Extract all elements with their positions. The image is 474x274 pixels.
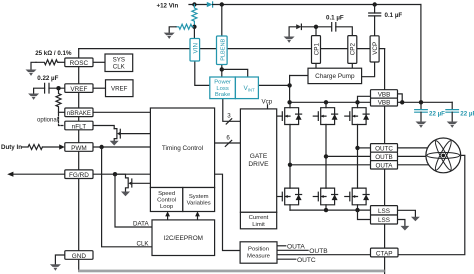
svg-text:FG/RD: FG/RD xyxy=(69,172,89,179)
svg-text:System: System xyxy=(189,194,209,200)
wire VREF to internal VREF box xyxy=(93,87,106,89)
node PWM / CLK branch xyxy=(99,145,103,149)
bus slash 6 xyxy=(225,140,231,146)
capacitor C4 22uF xyxy=(420,102,422,109)
resistor R3 (ROSC) xyxy=(36,60,59,65)
node rail phase C xyxy=(355,100,359,104)
ground (Q1 source) xyxy=(110,141,119,146)
wire VBB1 to bus xyxy=(398,94,403,102)
diode D2 (charge pump) xyxy=(296,24,301,29)
block Charge Pump xyxy=(308,68,362,83)
wire LSS2 to ground xyxy=(398,220,405,227)
node at +12Vin / resistor tap xyxy=(192,2,196,6)
svg-text:CP1: CP1 xyxy=(313,43,320,56)
svg-text:Control: Control xyxy=(157,197,176,203)
block Timing Control xyxy=(150,108,214,188)
wire cap to VREF pin xyxy=(49,87,65,89)
wire cap to ground xyxy=(34,88,45,94)
svg-text:nBRAKE: nBRAKE xyxy=(67,110,91,117)
wire phase A to OUTA pin xyxy=(290,164,371,166)
svg-text:6: 6 xyxy=(226,135,230,142)
pin FG/RD xyxy=(65,170,93,179)
svg-text:Limit: Limit xyxy=(252,222,265,228)
node below R1 xyxy=(192,25,196,29)
wire phase B to OUTB pin xyxy=(326,155,371,157)
node phase C tap xyxy=(355,146,359,150)
pin nFLT xyxy=(65,121,93,130)
node FG/RD / DATA branch xyxy=(113,172,117,176)
svg-text:Duty In: Duty In xyxy=(1,144,22,151)
arrow I2C to speed control loop xyxy=(167,215,169,220)
svg-text:GATE: GATE xyxy=(250,153,268,160)
svg-text:OUTB: OUTB xyxy=(375,154,393,161)
wire R3 to ground xyxy=(31,62,36,70)
svg-text:optional: optional xyxy=(37,118,58,124)
block I2C/EEPROM xyxy=(152,220,215,256)
block Position Measure xyxy=(240,242,277,263)
svg-text:PWM: PWM xyxy=(71,145,87,152)
svg-text:DRIVE: DRIVE xyxy=(248,161,269,168)
wire rail down to VBB bus xyxy=(420,5,422,103)
svg-text:Charge Pump: Charge Pump xyxy=(315,73,355,80)
svg-text:LSS: LSS xyxy=(378,217,390,224)
svg-text:22 µF: 22 µF xyxy=(460,111,474,118)
wire VIN down to Power Loss Brake xyxy=(195,61,210,85)
wire GND pin to ground xyxy=(55,255,65,265)
block System Variables xyxy=(183,188,215,212)
bus slash 3 xyxy=(226,119,232,124)
svg-text:25 kΩ / 0.1%: 25 kΩ / 0.1% xyxy=(35,50,72,57)
pin VBB 1 xyxy=(371,90,398,98)
wire rail to VBB pin 1 xyxy=(358,96,371,102)
pin LSS 1 xyxy=(371,206,398,215)
svg-text:+12 Vin: +12 Vin xyxy=(157,3,179,10)
block GATE DRIVE xyxy=(240,109,276,212)
wire VCP down to charge pump xyxy=(362,62,375,77)
svg-text:Loop: Loop xyxy=(160,204,174,210)
wire LSS1 to ground xyxy=(398,210,416,217)
svg-text:0.1 µF: 0.1 µF xyxy=(385,12,403,19)
svg-text:3: 3 xyxy=(227,113,231,120)
wire cap to CP2 xyxy=(336,27,353,36)
transistor Q7 (low side B) xyxy=(313,188,337,205)
pin PLBENB (teal) xyxy=(217,36,228,65)
svg-text:Brake: Brake xyxy=(215,92,231,98)
wire PM to OUTB label xyxy=(277,249,308,251)
node source rail B xyxy=(324,208,328,212)
svg-text:CLK: CLK xyxy=(113,64,126,71)
ground (top-left teal divider) xyxy=(164,33,175,39)
phase column B wire xyxy=(325,102,327,210)
block SYS CLK xyxy=(105,54,133,72)
wire VINT to charge pump net xyxy=(258,84,289,86)
svg-text:Variables: Variables xyxy=(187,200,211,206)
node CP1 top xyxy=(314,25,318,29)
node supply join xyxy=(419,100,423,104)
wire motor to CTAP xyxy=(398,155,465,254)
pin VBB 2 xyxy=(371,98,398,106)
net stub Vcp to gate drive xyxy=(267,105,269,109)
ground (C4) xyxy=(416,122,427,128)
wire Q2 gate to timing control xyxy=(132,182,151,184)
svg-text:OUTC: OUTC xyxy=(375,146,393,153)
IC boundary left edge xyxy=(78,49,80,272)
svg-text:GND: GND xyxy=(72,253,87,260)
IC boundary right edge xyxy=(384,49,386,274)
wire VIN pin to node xyxy=(193,27,195,39)
node on PLBENB wire xyxy=(220,67,224,71)
wire Power Loss Brake to gate drive (3-bus) xyxy=(223,99,241,122)
pin VREF xyxy=(65,84,93,93)
ground (charge pump diode) xyxy=(289,27,296,37)
svg-text:LSS: LSS xyxy=(378,208,390,215)
wire VCP pin up to cap xyxy=(374,16,376,36)
svg-text:Current: Current xyxy=(249,215,269,221)
block Current Limit xyxy=(240,212,276,229)
pin VCP xyxy=(370,36,379,62)
svg-text:VIN: VIN xyxy=(192,43,199,54)
svg-text:Timing Control: Timing Control xyxy=(162,145,203,152)
pin LSS 2 xyxy=(371,215,398,224)
svg-text:nFLT: nFLT xyxy=(72,123,87,130)
capacitor C1 0.1uF (CP1-CP2) xyxy=(332,23,336,31)
pin OUTC xyxy=(371,144,398,153)
svg-text:0.1 µF: 0.1 µF xyxy=(326,15,344,22)
wire ROSC to SYS CLK xyxy=(93,61,105,63)
wire PLBENB pin up to rail xyxy=(221,5,223,37)
svg-text:Position: Position xyxy=(248,246,269,252)
wire FG/RD output arrow xyxy=(12,173,65,175)
wire R5 to PWM pin with arrow xyxy=(42,146,61,148)
svg-text:Measure: Measure xyxy=(247,253,271,259)
block Power Loss Brake (teal) xyxy=(210,77,236,99)
wire PM to CTAP pin xyxy=(277,254,371,256)
svg-text:ROSC: ROSC xyxy=(70,60,89,67)
wire Duty In xyxy=(22,146,28,148)
ground (C5) xyxy=(447,122,458,128)
transistor Q1 (nFLT open drain) xyxy=(114,129,120,141)
motor M1 (fan) xyxy=(426,138,461,173)
pin OUTB xyxy=(371,152,398,160)
wire timing control to position measure xyxy=(215,174,241,250)
svg-text:VREF: VREF xyxy=(70,86,87,93)
svg-text:0.22 µF: 0.22 µF xyxy=(37,75,58,82)
ground (LSS2) xyxy=(401,226,410,231)
block Speed Control Loop xyxy=(150,188,182,212)
block VREF internal xyxy=(106,80,134,97)
wire OUTB to motor xyxy=(398,155,428,157)
bridge VBB rail xyxy=(290,101,371,103)
wire Q1 gate to timing control xyxy=(120,133,150,135)
svg-text:OUTC: OUTC xyxy=(297,257,316,264)
capacitor C3 0.22uF (VREF) xyxy=(45,83,49,93)
svg-text:CLK: CLK xyxy=(137,241,150,248)
wire CLK branch to I2C xyxy=(102,147,152,247)
node phase A tap xyxy=(288,163,292,167)
wire PM to OUTA label xyxy=(277,245,286,247)
pin ROSC xyxy=(65,58,93,67)
ground (VREF cap) xyxy=(28,94,39,100)
wire R3 to ROSC pin xyxy=(59,61,65,63)
node rail phase B xyxy=(324,100,328,104)
wire phase C to OUTC pin xyxy=(358,147,371,149)
phase column A wire xyxy=(289,102,291,210)
pin CP2 xyxy=(348,36,357,64)
svg-text:INT: INT xyxy=(248,87,255,92)
svg-text:SYS: SYS xyxy=(113,57,125,64)
resistor R2 (teal, horizontal) to ground xyxy=(176,24,194,29)
arrow I2C to system variables xyxy=(197,215,199,220)
wire FG/RD to timing control xyxy=(93,173,150,175)
wire diode to CP1 xyxy=(301,26,331,28)
transistor Q4 (high side B) xyxy=(313,108,337,125)
wire VBB bus to caps xyxy=(398,101,453,103)
wire nBRAKE to timing control xyxy=(93,111,150,113)
transistor Q5 (high side C) xyxy=(345,108,369,125)
block VINT (teal) xyxy=(235,77,258,99)
pin GND xyxy=(65,251,93,260)
wire CP2 down to charge pump xyxy=(351,63,353,68)
svg-text:VBB: VBB xyxy=(378,100,391,107)
svg-text:OUTA: OUTA xyxy=(375,162,393,169)
svg-text:CTAP: CTAP xyxy=(376,250,393,257)
phase column C wire xyxy=(357,102,359,210)
capacitor C5 22uF xyxy=(451,102,453,109)
resistor R1 (teal, vertical) from +12V xyxy=(192,5,197,27)
svg-text:VCP: VCP xyxy=(372,42,379,55)
svg-text:PLBENB: PLBENB xyxy=(220,38,226,60)
wire PM to OUTC label xyxy=(277,258,296,260)
node PLBENB tap on rail xyxy=(220,2,224,6)
wire R4 to nBRAKE pin xyxy=(59,111,66,113)
wire +12V top rail xyxy=(213,4,421,6)
pin CP1 xyxy=(312,36,321,64)
node VREF pull-up xyxy=(56,86,60,90)
svg-text:Speed: Speed xyxy=(158,191,175,197)
node bridge rail left xyxy=(287,100,291,104)
pin OUTA xyxy=(371,161,398,169)
ground (ROSC) xyxy=(26,70,37,76)
wire timing control to gate drive (6-bus) xyxy=(215,142,241,144)
wire node to VINT box xyxy=(222,69,248,77)
transistor Q8 (low side C) xyxy=(345,188,369,205)
ground (LSS1) xyxy=(411,217,420,222)
wire LSS2 to source rail xyxy=(358,210,371,219)
wire to charge pump box xyxy=(290,75,308,77)
wire OUTA to motor xyxy=(398,164,431,166)
svg-text:CP2: CP2 xyxy=(350,43,357,56)
wire nFLT line xyxy=(92,126,115,129)
svg-text:Loss: Loss xyxy=(216,86,228,92)
wire R2 to ground xyxy=(169,27,176,33)
svg-text:DATA: DATA xyxy=(133,220,149,227)
ground (Q2 source) xyxy=(121,192,130,197)
resistor R4 (nBRAKE pull-up, vertical) xyxy=(56,88,61,112)
resistor R5 (Duty In) xyxy=(28,145,42,150)
transistor Q3 (high side A) xyxy=(277,108,301,125)
ground (GND pin) xyxy=(50,264,61,270)
svg-text:I2C/EEPROM: I2C/EEPROM xyxy=(164,235,203,242)
wire CP1 down to charge pump xyxy=(315,63,317,68)
svg-text:Power: Power xyxy=(214,80,231,86)
IC boundary bottom edge (cropped, gray) xyxy=(78,270,384,273)
wire OUTC to motor xyxy=(398,147,430,149)
diode D1 (teal) on +12V rail xyxy=(207,2,213,7)
pin CTAP xyxy=(371,248,399,257)
node VCP cap tap on rail xyxy=(373,2,377,6)
wire PWM to timing control xyxy=(93,146,150,148)
transistor Q6 (low side A) xyxy=(277,188,301,205)
wire CP1 pin up xyxy=(315,27,317,36)
wire DATA branch to I2C xyxy=(115,174,152,227)
node VINT net xyxy=(287,83,291,87)
wire PLBENB down to Power Loss Brake xyxy=(221,65,223,78)
svg-text:22 µF: 22 µF xyxy=(429,111,445,118)
IC boundary top edge xyxy=(79,48,385,50)
wire +12Vin to diode xyxy=(189,4,207,6)
svg-text:OUTA: OUTA xyxy=(287,243,305,250)
pin VIN (teal) xyxy=(190,39,200,62)
svg-text:OUTB: OUTB xyxy=(309,248,328,255)
bridge source rail xyxy=(290,209,371,211)
node phase B tap xyxy=(324,154,328,158)
capacitor C2 0.1uF (VCP) xyxy=(369,13,381,16)
svg-text:VREF: VREF xyxy=(111,86,128,93)
optional dashed link xyxy=(59,114,65,126)
transistor Q2 (FG/RD open drain) xyxy=(115,174,132,192)
node VBB1 join xyxy=(400,100,404,104)
pin PWM xyxy=(65,143,93,152)
node source rail C xyxy=(355,208,359,212)
wire charge pump output vertical xyxy=(289,76,291,103)
pin nBRAKE xyxy=(65,108,93,117)
